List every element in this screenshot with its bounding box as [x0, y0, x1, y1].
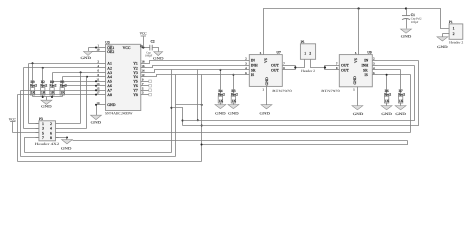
wire pin7 to bottom wrap: [25, 138, 39, 153]
svg-text:OE2: OE2: [107, 50, 114, 54]
pin Y3 (14): [141, 72, 147, 74]
svg-text:1K: 1K: [385, 99, 390, 103]
svg-text:OUT: OUT: [341, 68, 349, 72]
pin A2 (4): [97, 67, 106, 69]
wire header pin4 vertical: [86, 77, 88, 129]
svg-text:5: 5: [42, 131, 44, 135]
wire pin4 to A4 vertical: [59, 128, 87, 130]
svg-text:1: 1: [42, 122, 44, 126]
node SR on L1: [197, 119, 199, 121]
pin GND (10): [97, 104, 106, 106]
node Y3 jog branch: [170, 107, 172, 109]
svg-text:IS: IS: [365, 73, 368, 77]
svg-text:2: 2: [453, 32, 455, 36]
SECTION: header P5: [294, 40, 326, 73]
svg-text:IS: IS: [251, 73, 254, 77]
svg-text:GND: GND: [395, 112, 406, 116]
P5 pin 2 drop: [311, 60, 325, 68]
svg-text:1K: 1K: [31, 91, 36, 95]
wire A8 vertical down: [17, 95, 19, 162]
resistor R5: [62, 86, 64, 88]
node VCC junction: [142, 46, 144, 48]
wire header pin2 vertical: [80, 73, 82, 124]
svg-text:OUT: OUT: [341, 64, 349, 68]
U9 pin SR: [373, 69, 378, 71]
pin Y5 (9): [141, 81, 149, 83]
wire SR to R7: [378, 69, 401, 71]
wire pin8 U-turn return: [202, 141, 408, 145]
IC U3 SN74AHC240DW octal buffer body: [106, 44, 141, 110]
wire A7 row: [21, 90, 97, 92]
svg-text:2: 2: [309, 52, 311, 56]
ground (U7): [266, 87, 268, 105]
svg-text:2: 2: [50, 122, 52, 126]
P1 pin2 stub: [443, 33, 450, 35]
svg-text:SR: SR: [363, 68, 368, 72]
pin Y8 (3): [141, 94, 149, 96]
wire A8 row: [18, 94, 97, 96]
svg-text:GND: GND: [153, 56, 164, 60]
ground (R6): [381, 106, 392, 110]
wire L5 (A7 loop): [21, 156, 176, 158]
wire A4 row: [63, 76, 97, 78]
SECTION: left wiring: [18, 62, 98, 161]
pin A5 (11): [97, 81, 106, 83]
SECTION: left resistors: [30, 64, 67, 109]
svg-text:Y7: Y7: [133, 89, 138, 93]
wire L6 (A8 outer loop): [18, 161, 202, 163]
svg-text:8: 8: [50, 136, 52, 140]
wire pin6 long row: [59, 132, 411, 134]
U7 pin INH: [245, 65, 250, 67]
svg-text:U3: U3: [105, 40, 110, 44]
connector P5 Header 2 (motor): [300, 44, 315, 60]
ground (R4): [215, 105, 226, 109]
svg-text:C2: C2: [151, 40, 155, 44]
node pin8 gnd tap: [66, 137, 68, 139]
P3 pin stubs right: [56, 123, 59, 125]
svg-text:GND: GND: [228, 112, 239, 116]
svg-text:1K: 1K: [219, 99, 224, 103]
connector P3 Header 4X2: [39, 121, 56, 141]
svg-text:INH: INH: [362, 64, 369, 68]
svg-text:Header 2: Header 2: [449, 41, 463, 45]
pin Y6 (7): [141, 85, 149, 87]
svg-text:GND: GND: [437, 45, 448, 49]
svg-text:1: 1: [453, 26, 455, 30]
svg-text:Y3: Y3: [133, 71, 138, 75]
wire Y3 jog path down: [171, 70, 173, 153]
wire IN right: [378, 60, 419, 62]
wire A6 row: [63, 85, 97, 87]
svg-text:U7: U7: [277, 51, 282, 55]
svg-text:1K: 1K: [232, 99, 237, 103]
svg-text:Y4: Y4: [133, 75, 138, 79]
pin VCC (20): [141, 47, 150, 49]
svg-text:BTN7970: BTN7970: [272, 89, 292, 93]
svg-text:A1: A1: [107, 62, 112, 66]
pin Y7 (5): [141, 90, 149, 92]
node IS on L2: [201, 125, 203, 127]
svg-text:U9: U9: [367, 51, 372, 55]
svg-text:A6: A6: [107, 84, 112, 88]
wire pin2 to A3 vertical: [59, 123, 81, 125]
resistor R6: [386, 75, 388, 97]
U7 pin IN: [245, 60, 250, 62]
wire A2 row: [24, 67, 97, 69]
pin OE1 (1): [97, 47, 106, 49]
svg-text:1K: 1K: [50, 91, 55, 95]
svg-text:INH: INH: [251, 64, 258, 68]
svg-text:BTN7970: BTN7970: [321, 89, 340, 93]
wire Y2 to INH: [147, 66, 245, 68]
wire SR riser: [197, 70, 199, 121]
svg-text:VCC: VCC: [9, 118, 17, 122]
wire A3 row: [53, 72, 97, 74]
wire OUT join right: [324, 66, 326, 70]
pin A6 (13): [97, 85, 106, 87]
resistor R2: [42, 68, 44, 88]
power VCC symbol (chip): [143, 37, 145, 48]
capacitor C1 Cap Pol2 100pF: [406, 9, 408, 16]
svg-text:1K: 1K: [399, 99, 404, 103]
SECTION: mid resistors: [215, 69, 239, 116]
svg-text:GND: GND: [260, 111, 271, 115]
svg-text:1: 1: [304, 52, 306, 56]
svg-text:6: 6: [50, 131, 52, 135]
svg-text:GND: GND: [91, 120, 102, 124]
P5 pin 1 drop: [296, 60, 305, 68]
U7 pin IS: [245, 74, 250, 76]
SECTION: U3 buffer: [81, 32, 165, 125]
svg-text:Res2: Res2: [30, 84, 37, 88]
ground (U9): [357, 87, 359, 106]
svg-text:Res2: Res2: [60, 84, 67, 88]
wire A1 row: [29, 63, 97, 65]
svg-text:SR: SR: [251, 68, 256, 72]
svg-text:GND: GND: [215, 112, 226, 116]
wire pin5 from VCC: [13, 132, 39, 134]
svg-text:GND: GND: [381, 112, 392, 116]
svg-text:Header 4X2: Header 4X2: [35, 142, 60, 146]
wire IS riser down to return line: [201, 75, 203, 162]
svg-text:VCC: VCC: [123, 46, 131, 50]
svg-text:GND: GND: [401, 35, 412, 39]
SECTION: top bus: [264, 7, 464, 54]
SECTION: BTN2: [321, 51, 418, 117]
ground (pull resistors): [46, 97, 48, 101]
svg-text:GND: GND: [107, 103, 115, 107]
svg-text:GND: GND: [81, 56, 92, 60]
svg-text:SN74AHC240DW: SN74AHC240DW: [105, 112, 133, 116]
U9 pin OUT (upper): [325, 65, 340, 67]
wire A5 row: [53, 81, 97, 83]
wire resistor bottom bus: [33, 96, 63, 98]
svg-text:7: 7: [42, 136, 44, 140]
resistor R9: [32, 64, 34, 88]
SECTION: BTN1: [147, 51, 296, 116]
svg-text:P3: P3: [39, 117, 43, 121]
wire L2: [183, 61, 419, 126]
P3 pin stubs left: [36, 123, 39, 125]
wire IS right: [378, 74, 411, 76]
ground (OE pins): [89, 47, 97, 49]
wire long return row: [73, 140, 408, 142]
svg-text:100pF: 100pF: [411, 20, 419, 24]
wire cap to gnd: [153, 48, 159, 52]
resistor R7: [400, 70, 402, 97]
resistor R8: [52, 82, 54, 88]
driver U7 BTN7970 body: [249, 55, 282, 87]
svg-text:VCC: VCC: [140, 32, 148, 36]
svg-text:A7: A7: [107, 89, 112, 93]
connector P1 Header 2 (power): [449, 24, 463, 39]
pin OE2 (19): [97, 51, 106, 53]
wire L1: [183, 66, 415, 121]
svg-text:4: 4: [50, 127, 52, 131]
wire pin8 row: [56, 137, 68, 139]
power VCC symbol (left): [12, 122, 14, 133]
wire A4-A6 vertical: [62, 77, 64, 86]
wire A1 to header pin1: [28, 64, 30, 124]
svg-text:Y6: Y6: [133, 84, 138, 88]
pin A7 (15): [97, 90, 106, 92]
U9 pin IS: [373, 74, 378, 76]
wire Y4 jog path: [175, 75, 177, 157]
wire VS supply bus: [264, 9, 450, 55]
capacitor C2: [149, 45, 151, 51]
wire jog to IS riser: [176, 104, 202, 106]
svg-text:GND: GND: [61, 146, 72, 150]
SECTION: header P3: [9, 117, 411, 153]
wire SR row: [147, 70, 245, 73]
svg-text:GND: GND: [265, 77, 269, 85]
svg-text:IN: IN: [251, 59, 255, 63]
svg-text:100pF: 100pF: [145, 54, 153, 57]
svg-text:3: 3: [42, 127, 44, 131]
wire INH right: [378, 65, 415, 67]
wire OUT join left: [295, 66, 297, 70]
wire pin6 wrap (L3) riser: [410, 75, 412, 133]
pin A3 (6): [97, 72, 106, 74]
svg-text:A2: A2: [107, 66, 112, 70]
svg-text:1K: 1K: [61, 91, 66, 95]
U9 pin OUT (lower): [325, 69, 340, 71]
node A1/R9: [32, 62, 34, 64]
wire Y1 to IN: [147, 61, 245, 64]
svg-text:Y8: Y8: [133, 93, 138, 97]
wire A3-A5 vertical: [52, 73, 54, 82]
svg-text:Y2: Y2: [133, 66, 138, 70]
U9 pin INH: [373, 65, 378, 67]
node C1 tap: [405, 7, 407, 9]
svg-text:GND: GND: [41, 105, 52, 109]
svg-text:A8: A8: [107, 93, 112, 97]
ground (P1 pin2): [442, 34, 444, 37]
svg-text:VS: VS: [354, 58, 358, 63]
svg-text:Header 2: Header 2: [301, 69, 315, 73]
svg-text:GND: GND: [353, 76, 357, 84]
svg-text:A3: A3: [107, 71, 112, 75]
pin Y4 (12): [141, 76, 147, 78]
U7 pin OUT (lower): [283, 69, 296, 71]
resistor R3: [233, 75, 235, 97]
svg-text:Y5: Y5: [133, 80, 138, 84]
wire L4 (pin7 to Y3): [25, 152, 172, 154]
ground (U3 pin 10): [96, 105, 98, 116]
svg-text:VS: VS: [264, 58, 268, 63]
U9 pin IN: [373, 60, 378, 62]
node Y4/IS vertical join: [201, 104, 203, 106]
svg-text:1K: 1K: [41, 91, 46, 95]
pin A8 (17): [97, 94, 106, 96]
node A4/header pin4: [86, 76, 88, 78]
svg-text:A5: A5: [107, 80, 112, 84]
SECTION: bottom wires: [18, 61, 419, 162]
U7 pin SR: [245, 69, 250, 71]
resistor R4: [220, 70, 222, 97]
svg-text:P1: P1: [449, 20, 453, 24]
wire C1 to gnd: [406, 19, 408, 29]
svg-text:OUT: OUT: [271, 68, 279, 72]
svg-text:Res2: Res2: [40, 84, 47, 88]
svg-text:OUT: OUT: [271, 64, 279, 68]
wire A2 to header pin3: [23, 68, 25, 129]
pin Y2 (16): [141, 67, 147, 69]
node A2/R2: [42, 67, 44, 69]
wire pin1 from A1: [29, 123, 39, 125]
pin A4 (8): [97, 76, 106, 78]
node A3/header pin2: [80, 71, 82, 73]
node return/riser: [201, 144, 203, 146]
svg-text:IN: IN: [364, 59, 368, 63]
driver U9 BTN7970 body: [339, 55, 372, 87]
ground (R3): [228, 105, 239, 109]
svg-text:GND: GND: [353, 112, 364, 116]
wire VS U9 drop: [358, 9, 360, 55]
svg-text:Y1: Y1: [133, 62, 138, 66]
wire pin3 from A2: [24, 128, 39, 130]
ground (C1): [401, 29, 412, 33]
wire IS row: [147, 75, 245, 77]
ground (P3 pin8): [66, 138, 68, 140]
U7 pin OUT (upper): [283, 65, 296, 67]
svg-text:P5: P5: [301, 40, 305, 44]
ground (R7): [395, 106, 406, 110]
wire jog to L1 riser: [172, 108, 183, 126]
pin Y1 (18): [141, 63, 147, 65]
ground (C2): [154, 52, 163, 56]
svg-text:Res2: Res2: [50, 84, 57, 88]
pin A1 (2): [97, 63, 106, 65]
node VS U9: [358, 7, 360, 9]
wire A7 vertical down: [20, 91, 22, 157]
svg-text:A4: A4: [107, 75, 112, 79]
